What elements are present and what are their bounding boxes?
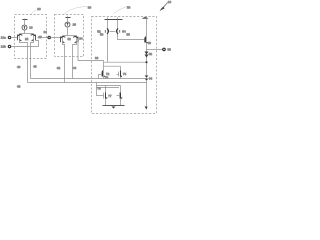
svg-text:24: 24	[44, 30, 48, 34]
wire	[107, 20, 109, 29]
transistor M4	[117, 71, 123, 78]
wire	[105, 100, 107, 106]
transistor Q4	[73, 36, 78, 43]
leader line 50	[114, 7, 127, 14]
transistor Q2	[31, 34, 36, 41]
wire	[103, 62, 105, 70]
junction node	[145, 61, 147, 63]
wire tail D	[73, 43, 77, 79]
wire	[120, 86, 122, 92]
svg-text:26: 26	[73, 22, 77, 26]
transistor M1	[105, 28, 112, 36]
transistor M6	[117, 92, 123, 100]
ground arrow follower	[145, 107, 148, 110]
wire stage1 output	[38, 37, 48, 39]
wire	[103, 78, 105, 79]
svg-text:48: 48	[17, 84, 21, 88]
svg-text:34: 34	[79, 36, 83, 40]
wire	[120, 66, 122, 70]
svg-text:32: 32	[68, 37, 72, 41]
dashed box second stage (middle)	[55, 15, 84, 57]
wire M1 drain down	[107, 36, 109, 63]
input terminal 12a	[8, 36, 10, 38]
supply tap top right	[142, 17, 149, 19]
wire	[67, 27, 69, 36]
wire follower drain-source	[146, 17, 148, 107]
svg-text:74: 74	[123, 72, 127, 76]
svg-text:10: 10	[168, 0, 172, 4]
transistor M2	[113, 28, 120, 36]
wire tail B	[31, 41, 34, 79]
wire	[120, 100, 122, 106]
leader line 30	[64, 7, 88, 15]
input terminal 12b	[8, 45, 10, 47]
svg-text:12a: 12a	[1, 36, 6, 40]
svg-text:42: 42	[57, 66, 61, 70]
transistor M5	[101, 92, 108, 100]
figure pointer mark	[162, 3, 168, 10]
wire	[12, 41, 39, 47]
wire drain arch row1	[104, 65, 121, 67]
leader line 20	[31, 10, 37, 14]
wire	[63, 35, 77, 37]
wire gate feed row1	[98, 75, 100, 79]
wire	[24, 31, 26, 34]
svg-text:77: 77	[108, 94, 112, 98]
wire drain tie row2	[97, 85, 121, 87]
diode stack D2	[145, 76, 149, 81]
diode stack D1	[145, 52, 149, 58]
transistor M3	[99, 71, 106, 78]
transistor Q1	[18, 34, 23, 41]
svg-text:44: 44	[73, 66, 77, 70]
wire	[120, 78, 122, 79]
wire	[51, 37, 61, 39]
svg-text:58: 58	[127, 33, 131, 37]
wire	[105, 86, 107, 92]
wire tail C	[63, 43, 65, 83]
wire gate tie row2	[97, 87, 120, 89]
current source I1	[22, 25, 27, 30]
ground arrow	[112, 107, 116, 109]
svg-text:40: 40	[17, 65, 21, 69]
svg-text:16: 16	[29, 25, 33, 29]
supply bar left stage	[24, 19, 26, 20]
dashed box output stage (right)	[92, 17, 157, 114]
svg-text:62: 62	[149, 52, 153, 56]
svg-text:64: 64	[149, 77, 153, 81]
svg-text:50: 50	[127, 6, 131, 10]
wire	[20, 33, 34, 35]
dashed box first stage (left)	[15, 15, 47, 59]
wire	[24, 20, 26, 25]
terminal node 24	[48, 36, 50, 38]
bias line L2	[28, 82, 147, 84]
current source I2	[65, 22, 70, 27]
wire gate feed row2	[97, 83, 101, 96]
svg-text:56: 56	[100, 33, 104, 37]
svg-text:38: 38	[167, 48, 171, 52]
wire output	[147, 49, 163, 51]
svg-text:60: 60	[148, 41, 152, 45]
supply bar output stage	[108, 18, 118, 20]
output terminal 38	[163, 48, 166, 51]
wire	[117, 20, 119, 29]
bias line L1	[31, 78, 147, 80]
svg-text:20: 20	[37, 7, 41, 11]
transistor Q3	[61, 36, 66, 43]
wire	[12, 37, 18, 39]
svg-text:54: 54	[122, 29, 126, 33]
svg-text:36: 36	[95, 56, 99, 60]
wire stage2 output	[78, 42, 104, 60]
wire tail A	[20, 41, 28, 83]
transistor M7	[145, 37, 149, 43]
svg-text:46: 46	[33, 65, 37, 69]
svg-text:76: 76	[97, 87, 101, 91]
wire	[67, 18, 69, 22]
svg-text:12b: 12b	[1, 44, 6, 48]
wire drain tie row1	[104, 61, 147, 63]
svg-text:22: 22	[25, 37, 29, 41]
svg-text:30: 30	[88, 5, 92, 9]
ground bar	[103, 105, 125, 107]
supply bar middle stage	[67, 16, 69, 18]
wire M2 drain to follower gate	[118, 36, 145, 40]
